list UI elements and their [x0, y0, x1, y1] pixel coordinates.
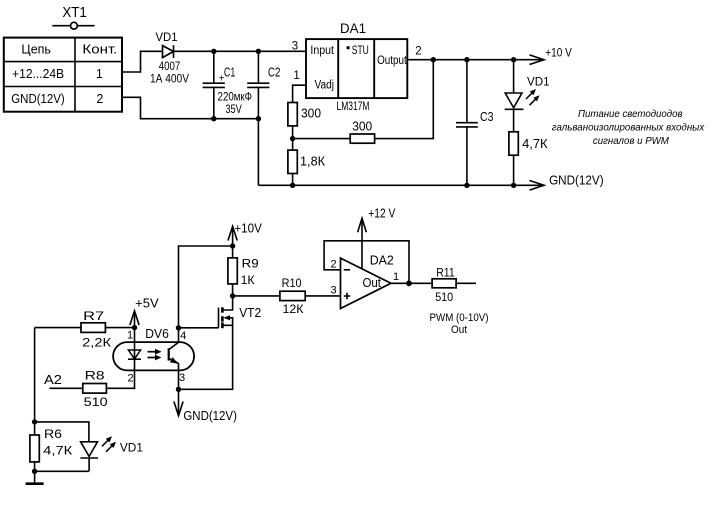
svg-text:1А 400V: 1А 400V	[150, 74, 189, 86]
node C1 top	[211, 49, 216, 54]
wire VD1 bottom	[35, 470, 89, 472]
optocoupler DV6 body	[113, 327, 194, 370]
svg-text:+10 V: +10 V	[545, 48, 572, 60]
opto light arrows	[148, 349, 162, 361]
wire left rail down	[34, 328, 36, 422]
resistor 1,8K	[288, 150, 326, 173]
svg-text:DA2: DA2	[370, 252, 394, 267]
svg-text:PWM (0-10V): PWM (0-10V)	[430, 312, 489, 324]
svg-text:510: 510	[84, 395, 108, 409]
svg-text:3: 3	[292, 41, 298, 53]
svg-text:2,2К: 2,2К	[82, 336, 111, 350]
wire pin1 to diode	[122, 51, 162, 72]
svg-text:+10V: +10V	[234, 222, 262, 236]
svg-text:STU: STU	[352, 45, 369, 57]
svg-text:Цепь: Цепь	[21, 43, 51, 57]
svg-text:С3: С3	[480, 110, 494, 124]
svg-text:С2: С2	[268, 66, 281, 80]
svg-text:Конт.: Конт.	[82, 43, 117, 57]
node gnd junction	[32, 469, 37, 474]
label PWM out	[430, 312, 489, 336]
svg-text:VD1: VD1	[156, 30, 178, 44]
arrow GND(12V) top	[530, 174, 604, 191]
wire VD1 branch top	[35, 422, 89, 441]
ground	[26, 471, 44, 483]
node C2 top	[256, 49, 261, 54]
diode VD1	[150, 30, 189, 86]
svg-text:VD1: VD1	[120, 441, 143, 455]
wire Vadj	[293, 85, 306, 102]
svg-text:Vadj: Vadj	[315, 80, 335, 92]
arrow +10V	[530, 48, 573, 65]
node +10V / R9	[230, 243, 235, 248]
resistor 300 horizontal	[350, 120, 374, 144]
resistor R6	[30, 422, 72, 471]
transistor VT2	[219, 296, 262, 328]
svg-text:300: 300	[301, 107, 321, 121]
resistor R10	[280, 276, 305, 316]
svg-text:1К: 1К	[241, 273, 255, 287]
svg-text:3: 3	[331, 285, 337, 297]
node A2 input	[44, 373, 62, 387]
svg-text:4007: 4007	[159, 61, 181, 73]
node gate/pin4	[176, 325, 181, 330]
svg-text:2: 2	[127, 373, 133, 385]
annotation text	[552, 109, 706, 147]
node 4,7K bottom	[511, 183, 516, 188]
wire DA1 output rail	[407, 59, 543, 61]
node adj divider	[290, 136, 295, 141]
capacitor C1	[203, 51, 253, 118]
wire pin 2 / R8 run	[49, 370, 134, 388]
resistor R7	[81, 309, 111, 350]
node C3 bottom	[464, 183, 469, 188]
wire R7 run	[35, 327, 135, 329]
svg-text:сигналов и PWM: сигналов и PWM	[593, 136, 670, 147]
svg-text:R8: R8	[85, 369, 105, 383]
wire 300h to output rail	[375, 60, 434, 139]
svg-text:1,8К: 1,8К	[300, 155, 326, 169]
svg-text:300: 300	[352, 120, 372, 134]
svg-text:GND(12V): GND(12V)	[11, 92, 65, 106]
svg-text:220мкФ: 220мкФ	[218, 92, 253, 104]
wire R10 run	[233, 295, 341, 297]
svg-text:3: 3	[179, 372, 185, 384]
wire gate	[179, 327, 219, 329]
wire pin 4	[179, 328, 187, 343]
op-amp DA2	[331, 252, 400, 308]
svg-text:1: 1	[293, 70, 299, 82]
svg-text:1: 1	[96, 67, 103, 81]
svg-text:R6: R6	[44, 427, 62, 441]
node R6 top	[32, 419, 37, 424]
svg-text:12К: 12К	[283, 302, 304, 316]
svg-text:Питание светодиодов: Питание светодиодов	[578, 109, 683, 120]
wire output	[391, 282, 432, 284]
svg-text:1: 1	[393, 271, 399, 283]
wire 1,8K to gnd rail	[292, 174, 294, 186]
resistor 4,7K (top)	[509, 132, 548, 186]
opto LED	[128, 342, 141, 370]
svg-text:DA1: DA1	[340, 21, 366, 36]
svg-text:XT1: XT1	[62, 5, 87, 21]
node C1 bottom	[211, 116, 216, 121]
resistor R11	[432, 265, 456, 304]
svg-text:1: 1	[127, 330, 133, 342]
connector XT1 symbol	[52, 22, 94, 29]
gnd rail top section	[258, 184, 543, 186]
svg-text:С1: С1	[224, 66, 236, 80]
svg-text:VD1: VD1	[527, 75, 550, 89]
svg-text:VT2: VT2	[239, 306, 261, 320]
wire R11 out	[456, 282, 476, 284]
node C3 top	[464, 57, 469, 62]
svg-text:4,7К: 4,7К	[522, 137, 548, 151]
svg-text:35V: 35V	[225, 104, 242, 116]
svg-text:R10: R10	[282, 276, 302, 290]
svg-text:LM317M: LM317M	[337, 101, 370, 113]
svg-text:GND(12V): GND(12V)	[549, 174, 604, 188]
svg-text:4,7К: 4,7К	[43, 444, 72, 458]
svg-text:Input: Input	[310, 45, 334, 57]
svg-text:+5V: +5V	[135, 297, 159, 311]
wire feedback to 300 horizontal	[293, 138, 351, 140]
opto phototransistor	[169, 342, 179, 370]
connector XT1 label	[62, 5, 87, 21]
wire pin 1	[127, 328, 135, 343]
svg-text:Out: Out	[451, 324, 467, 336]
arrow +10V (lower)	[228, 222, 263, 247]
svg-text:Output: Output	[377, 55, 407, 67]
svg-text:R11: R11	[436, 265, 455, 279]
svg-text:R9: R9	[242, 257, 259, 271]
arrow +12V	[358, 207, 396, 269]
node R9 bottom	[230, 293, 235, 298]
svg-text:A2: A2	[44, 373, 62, 387]
node C2 bottom	[256, 116, 261, 121]
wire 300 to node	[292, 126, 294, 150]
svg-text:2: 2	[415, 45, 421, 57]
capacitor C3	[456, 60, 494, 186]
wire pin2 feedback loop	[324, 241, 409, 283]
wire VT2 source to pin3	[179, 325, 233, 389]
LED VD1 (power indicator)	[505, 60, 550, 132]
svg-text:GND(12V): GND(12V)	[183, 409, 237, 423]
svg-text:Out: Out	[363, 276, 382, 290]
resistor R9	[228, 246, 259, 296]
node feedback	[431, 57, 436, 62]
wire pin 3	[179, 370, 186, 389]
connector table XT1	[4, 38, 122, 112]
arrow GND(12V) bottom	[174, 389, 237, 423]
node 1,8K bottom	[290, 183, 295, 188]
svg-text:510: 510	[435, 290, 453, 304]
LED VD1 (bottom)	[80, 436, 143, 471]
svg-text:DV6: DV6	[145, 327, 169, 341]
svg-text:+12...24В: +12...24В	[12, 67, 64, 81]
node pin3	[176, 387, 181, 392]
capacitor C2	[247, 51, 280, 118]
wire diode to DA1 input	[173, 50, 306, 52]
arrow +5V	[130, 297, 159, 328]
node LED branch top	[511, 57, 516, 62]
svg-text:гальваноизолированных входных: гальваноизолированных входных	[552, 123, 706, 134]
svg-text:+12 V: +12 V	[368, 207, 396, 221]
node +5V / pin1	[132, 325, 137, 330]
svg-text:2: 2	[331, 259, 337, 271]
svg-text:R7: R7	[83, 309, 104, 323]
svg-text:4: 4	[180, 330, 186, 342]
wire pin4 up to +10V node	[179, 246, 233, 328]
regulator DA1	[292, 21, 422, 113]
wire pin2 to bottom rail	[122, 97, 259, 185]
svg-text:2: 2	[96, 92, 103, 106]
resistor R8	[83, 369, 108, 410]
resistor 300 vertical	[288, 103, 321, 126]
node output	[406, 280, 412, 286]
